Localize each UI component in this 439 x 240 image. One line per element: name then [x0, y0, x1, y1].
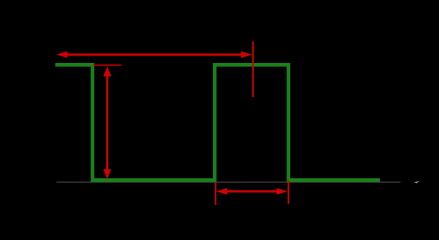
- pulse width right extension line: [287, 180, 289, 204]
- top level reference line: [93, 64, 122, 66]
- period left arrowhead: [57, 51, 68, 58]
- amplitude arrow shaft: [106, 74, 108, 171]
- axis arrowhead: [414, 181, 419, 183]
- pulse width left arrowhead: [216, 188, 227, 195]
- pulse width dimension line: [220, 190, 283, 192]
- pulse waveform: [55, 65, 380, 180]
- period dimension line: [60, 53, 247, 55]
- period right arrowhead: [241, 51, 252, 58]
- time axis: [57, 181, 401, 183]
- pulse width right arrowhead: [277, 188, 288, 195]
- amplitude top arrowhead: [103, 66, 111, 76]
- amplitude bottom arrowhead: [103, 169, 111, 179]
- period right extension line: [252, 41, 254, 97]
- pulse width left extension line: [215, 183, 217, 206]
